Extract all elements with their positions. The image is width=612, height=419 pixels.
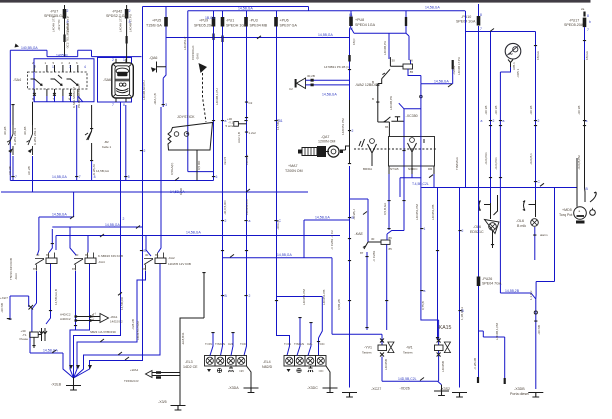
node ticks along 460 [458,230,461,311]
component T1 box [30,332,39,337]
svg-text:-PU1: -PU1 [226,19,234,23]
pin numbers SA4 bottom [32,97,71,101]
wire funnel feed x70 [70,264,90,378]
svg-text:=#=: =#= [319,369,324,373]
svg-text:a: a [481,119,483,123]
svg-text:85: 85 [155,253,159,257]
node tick KAE 85 [385,300,388,301]
icon EL3 under2 circleplus [217,368,221,372]
wire MD5 fuse line lower [584,27,586,60]
svg-text:L4D451.P: L4D451.P [183,37,187,50]
svg-text:-3D NB: -3D NB [537,325,541,335]
icon EL4 under2 circleplus [297,368,301,372]
label PU9 [194,19,214,28]
node tick 583 b [583,125,586,126]
svg-text:-PU17: -PU17 [569,19,579,23]
svg-text:5 wire: 5 wire [226,124,234,128]
svg-text:85: 85 [410,70,414,74]
wire KAB coil left pin [390,57,403,66]
label PU5 [146,19,162,28]
node tick MA7 [348,163,351,164]
svg-text:AAV.1,B: AAV.1,B [237,132,241,143]
svg-text:1.2x2: 1.2x2 [249,131,257,135]
wire x76 drop [76,105,78,181]
svg-text:14,5B,GA: 14,5B,GA [170,190,185,194]
wire joystick down [196,150,198,181]
svg-text:N/HDC: N/HDC [408,167,418,171]
wire x50 relay1 out [46,264,51,325]
ground X3S2 [452,393,467,398]
svg-text:14,5B,GA: 14,5B,GA [425,6,440,10]
svg-text:T/SIGN: T/SIGN [294,342,304,346]
svg-text:30: 30 [145,253,149,257]
arrow WA1 [100,314,109,323]
wire switch drop x13 [12,104,14,125]
wire x91 lower [91,160,93,181]
node tick 504 end [504,378,506,384]
label X3DB [510,387,529,396]
svg-text:-OL6: -OL6 [516,219,524,223]
rocker switch SA6 outer [112,63,134,98]
svg-text:85: 85 [389,247,393,251]
svg-text:T/B/D/GA: T/B/D/GA [455,157,459,170]
svg-text:14,5B,GA,B: 14,5B,GA,B [54,289,58,305]
svg-text:A4D/C2: A4D/C2 [60,317,71,321]
svg-text:-3D NB: -3D NB [0,303,4,313]
svg-text:B: B [225,294,228,298]
label X2 stub [0,296,8,313]
svg-text:-SA6: -SA6 [103,78,111,82]
fuse PU3 [244,17,248,27]
svg-text:T.ON: T.ON [284,342,291,346]
X marks SA4 bottom [33,93,72,96]
relay unit 1 pins [34,65,47,96]
svg-text:-3U4,B,1: -3U4,B,1 [529,153,533,165]
svg-text:+X2/7: +X2/7 [0,296,8,300]
wire KA15 drop 421 valve2 [421,84,439,345]
svg-text:2: 2 [462,229,464,233]
joystick circle 2 dot [186,133,188,135]
wire XC350 net [399,103,421,230]
svg-text:7: 7 [79,175,81,179]
label KA3 rotated [9,258,18,280]
node 406 tick [405,17,407,26]
wire YT1 stub [238,123,246,125]
lamp cluster EL3 sq3 [226,356,237,367]
wire bus B7 [37,192,73,255]
svg-text:Torq Pot: Torq Pot [559,213,572,217]
svg-text:-QA7: -QA7 [321,135,329,139]
svg-text:C2L: C2L [228,342,234,346]
relay KAB coil [403,64,413,69]
svg-text:5: 5 [128,175,130,179]
wire WA4 lines [152,373,180,376]
svg-text:-KA2: -KA2 [168,256,175,260]
svg-text:2: 2 [493,119,495,123]
svg-text:-X3LB: -X3LB [51,383,62,387]
icon EL4 under3 shower [308,367,313,373]
svg-text:C2: C2 [289,87,293,91]
svg-text:87: 87 [72,267,76,271]
svg-text:-KAE: -KAE [355,232,364,236]
fuse PU8 [349,17,353,27]
svg-text:-3U4,PA1: -3U4,PA1 [484,152,488,165]
rocker pins [116,59,126,102]
svg-text:8: 8 [67,20,69,24]
relay unit 3 contact [67,79,79,86]
wire right drop 459 [459,188,461,388]
svg-text:+MA7: +MA7 [288,164,298,168]
relay unit 1 contact [31,79,43,86]
wire KA2 feeds [146,236,151,257]
node WA4 squares [156,371,161,378]
svg-text:=#=: =#= [239,369,244,373]
svg-text:-WA2 12B/DC2: -WA2 12B/DC2 [355,83,379,87]
svg-text:AC.2B: AC.2B [8,166,12,175]
svg-text:T5P26 KIN KOB: T5P26 KIN KOB [9,258,13,280]
lamp cluster EL4 sq2 [295,356,306,367]
wire motor MD5 stem [576,158,578,207]
svg-text:-OL6: -OL6 [473,225,481,229]
svg-text:SPEDH 1GA: SPEDH 1GA [226,24,247,28]
svg-text:-DA6: -DA6 [196,53,200,60]
svg-text:C2: C2 [249,101,253,105]
wire MA7 right vertical black [349,100,351,164]
icon EL3 under1 arrow [207,369,211,372]
wire valve1 down [382,351,442,385]
svg-text:8: 8 [480,13,482,17]
node dot 421 [420,95,423,98]
svg-text:-3D 3B: -3D 3B [577,106,581,115]
ground mark XC350 [391,117,403,122]
relay KAE coil [381,240,390,244]
node tick OL6b [533,235,536,236]
svg-text:30,2B: 30,2B [307,74,315,78]
label T15 top left [96,169,109,173]
wire bus B6 [1,191,308,193]
node tick 91b [90,160,93,161]
svg-text:-PU26: -PU26 [482,277,492,281]
node tick 535 low [534,321,537,322]
rocker switch SA6 bottom arcs [116,88,128,92]
ground X3LB [66,386,81,391]
svg-text:L4D45B: L4D45B [441,361,445,372]
svg-text:-EL3: -EL3 [185,360,193,364]
wire MD5 fuse line black [584,60,587,202]
lamp OL6 horn [485,220,500,234]
wire rocker drop x120 [74,102,121,378]
rocker switch SA6 top ellipse [116,68,128,74]
blue pin marks fuse PU8 [349,13,353,31]
node tick x75 end [74,325,77,326]
svg-text:L4D4H 2T.P: L4D4H 2T.P [119,16,123,32]
wire KAE 85 out [386,244,388,330]
joystick dashed pointer [203,73,207,122]
wire PU3 long drop [244,11,247,356]
svg-text:1,5B: 1,5B [91,314,95,320]
svg-text:B mlk: B mlk [517,224,526,228]
label YV1 [362,346,372,355]
node tick 536 b [534,125,537,126]
svg-text:1B,C: 1B,C [352,37,356,45]
svg-text:B: B [372,80,374,84]
node WA2 squares [311,79,314,87]
contact V1 [359,139,377,160]
svg-text:1,1,B,J: 1,1,B,J [529,290,533,300]
label WA4 [124,368,139,383]
svg-text:14,5B,GA: 14,5B,GA [277,253,292,257]
svg-text:0,5B,2B: 0,5B,2B [337,299,341,310]
fuse PU6 [274,17,278,27]
title bar [0,0,591,3]
fuse PU47 [125,9,129,19]
svg-text:-PU7: -PU7 [50,10,58,14]
label EL3 pins [205,342,248,346]
arrow WA4 [146,371,153,378]
pin texts KA2 [142,253,159,271]
svg-text:7: 7 [587,28,589,32]
svg-text:14D,5B,C2L: 14D,5B,C2L [398,377,417,381]
svg-text:L4D451,PM: L4D451,PM [415,204,419,220]
svg-text:SPED5.20A: SPED5.20A [564,23,584,27]
svg-text:B: B [586,187,589,191]
pin texts KA4 [72,253,89,271]
pin texts KA3 [33,253,50,271]
svg-text:SPE04 7GA: SPE04 7GA [482,282,502,286]
svg-text:SPED5.20A: SPED5.20A [194,24,214,28]
svg-text:-X C2B1 -X C2: -X C2B1 -X C2 [330,230,334,250]
wire bus B3 [166,37,350,39]
dashed link line [354,148,436,150]
svg-text:B: B [372,97,374,101]
node ticks EL3 feeds [211,332,234,333]
svg-text:8: 8 [94,175,96,179]
ground X3LB stem [73,377,75,386]
svg-text:0,5,B,GA: 0,5,B,GA [383,203,387,215]
svg-text:alarm: alarm [540,233,548,237]
diode pair T1 [40,328,48,341]
svg-text:14,5B,RD: 14,5B,RD [120,296,124,310]
svg-text:2: 2 [67,9,69,13]
svg-text:1: 1 [45,61,47,65]
wires SA4 pins to box bottom [34,96,83,102]
node tick 367 end [365,327,368,328]
label PU3 [250,19,268,28]
wire heater drop [508,60,513,68]
node ticks along 389 [387,200,390,201]
svg-text:2: 2 [352,129,354,133]
wire bus B10 [223,258,383,345]
arc arrow MD5 [590,192,596,202]
node tick 478 end [477,377,479,383]
svg-text:T.DC: T.DC [240,342,248,346]
svg-text:30: 30 [371,237,375,241]
svg-text:T.DC: T.DC [318,342,326,346]
icon EL4 under1 arrow [287,369,291,372]
svg-text:4: 4 [84,65,86,69]
wire PU9 drop [213,11,215,181]
label EL4 [262,360,273,369]
svg-text:L4D4B,PU: L4D4B,PU [383,41,387,55]
ground X3DC [323,388,338,393]
motor MA7 plug body [298,146,329,157]
node ticks along 246 [244,120,247,296]
label PU47 [106,10,128,19]
fuse PU26 [477,277,481,287]
wire fuse drop PU47 lower [126,5,128,63]
node tick x50 end [49,310,52,311]
svg-text:62: 62 [349,27,353,31]
wire funnel left bus [30,332,74,378]
fuse PU10 [477,16,481,26]
wire heater drop blue [500,67,535,389]
label PU17 [564,19,584,28]
relay KA3 coil [35,253,57,271]
svg-text:14,5B,GA: 14,5B,GA [322,93,337,97]
ground X3DB [528,393,543,398]
switch contact above OL6b [529,200,537,217]
wire x125 drop [125,105,127,181]
wire bus 296 EL4 feed [277,297,323,356]
wire WA2 lines [306,80,350,85]
svg-text:DR: DR [428,167,433,171]
lamp cluster EL3 sq2 [215,356,226,367]
svg-text:7: 7 [480,27,482,31]
svg-text:-3C2 YN: -3C2 YN [57,20,61,31]
rocker switch SA6 top band [117,72,127,77]
svg-text:L4D451: L4D451 [245,154,249,165]
svg-text:+WA4: +WA4 [130,368,138,372]
wire OL6b down [534,227,536,260]
svg-text:-XD5 1: -XD5 1 [516,68,520,78]
svg-text:61: 61 [349,13,353,17]
connector dots bus5 [11,176,215,177]
svg-text:-KA15: -KA15 [437,325,452,331]
pin text B [372,80,389,129]
wire 478 branch to 504 [479,331,505,378]
svg-text:-3D 3B: -3D 3B [484,106,488,115]
blue pin boxA [34,65,86,69]
svg-text:ED521C: ED521C [470,230,484,234]
pin label row [363,167,433,171]
wire KAB coil left feed [388,33,390,59]
label KA2 [168,256,191,266]
potentiometer wiper circle [590,208,596,216]
rocker corner marks [114,65,132,97]
node tick x13 top [11,104,14,105]
svg-text:2: 2 [112,58,114,62]
connector stub 536 top tick [534,45,537,46]
switch B2 component [85,131,92,140]
contact arc OL6 [478,201,480,211]
label EL4 pins [284,342,326,346]
svg-text:-W1: -W1 [406,346,413,350]
svg-text:T/SIGN: T/SIGN [215,342,225,346]
svg-text:+MD5: +MD5 [562,208,572,212]
node X mark valve1 [380,339,384,343]
wire bus B4 relay box top [10,50,141,56]
svg-text:-30A,1,B: -30A,1,B [153,93,157,105]
node ticks along 352 [348,130,351,301]
svg-text:85: 85 [46,253,50,257]
svg-text:L4D451,PB: L4D451,PB [431,205,435,220]
connector stub 583 top tick [583,40,586,41]
valve YV2 [435,342,451,353]
node tick 536 c [534,181,537,182]
svg-text:2: 2 [249,294,251,298]
svg-text:-B2: -B2 [104,140,109,144]
svg-text:a: a [249,219,251,223]
svg-text:1: 1 [123,58,125,62]
svg-text:-QA6: -QA6 [149,56,157,60]
svg-text:2: 2 [129,9,131,13]
svg-text:-EL8,B41: -EL8,B41 [181,332,185,345]
svg-text:1470B31 PK 2B (1): 1470B31 PK 2B (1) [324,65,350,69]
contact box KAE2 [389,137,435,167]
node tick 389 end [387,228,390,229]
svg-text:30: 30 [36,253,40,257]
svg-text:K.2B1 2B2.4: K.2B1 2B2.4 [33,128,37,145]
wire funnel feed x77 [74,271,146,378]
svg-text:6: 6 [76,61,78,65]
svg-text:2a: 2a [581,7,585,11]
svg-text:14/D651 PM: 14/D651 PM [341,118,345,135]
svg-text:86: 86 [389,236,393,240]
switch QAB arm [378,69,391,136]
wire bus B5 [10,180,213,182]
node tick 437 end [436,337,439,338]
svg-text:14,5B,GA: 14,5B,GA [315,216,330,220]
wire bus B2 [188,10,465,12]
label joystick config [191,45,200,60]
transistor QA6 [157,62,167,73]
svg-text:14,5B,GA: 14,5B,GA [238,7,253,11]
svg-text:-X C2B1: -X C2B1 [372,250,376,262]
node ticks 246 upper [245,102,248,158]
switch arm x13 [7,125,13,155]
transistor QA6 arrow [151,67,156,72]
wire left fuse drop PU7 lower [64,5,66,57]
svg-text:T200N OM: T200N OM [285,169,303,173]
node tick 536 a [534,120,537,121]
lamp OL6b [531,219,539,227]
micro labels 246 [237,101,256,143]
svg-text:K.SBL MOM.ST: K.SBL MOM.ST [72,87,76,108]
motor MA7 eyelet [328,146,339,157]
svg-text:1: 1 [52,65,54,69]
svg-text:86: 86 [410,59,414,63]
wire x13 lower [12,156,14,181]
wire PU5 drop [163,6,166,107]
svg-text:L4D4.5 LY.RD: L4D4.5 LY.RD [136,320,140,340]
svg-text:-WA1: -WA1 [110,315,118,319]
svg-text:3D,4B: 3D,4B [23,127,27,135]
node KA3 tick [51,243,54,244]
svg-text:T.ON: T.ON [205,342,212,346]
svg-text:2: 2 [123,217,125,221]
wire left edge vertical [9,50,11,180]
node MA7 contact square [340,150,343,154]
node tick 500 b [499,125,502,126]
joystick circle 1 [174,132,179,137]
svg-text:87: 87 [360,251,364,255]
rocker switch SA6 mid lines [116,79,130,81]
node tick 500 a [499,120,502,121]
svg-text:NT/LB: NT/LB [390,167,399,171]
lamp cluster EL4 sq4 [316,356,327,367]
heater icon circle [505,43,521,59]
svg-text:7: 7 [112,103,114,107]
